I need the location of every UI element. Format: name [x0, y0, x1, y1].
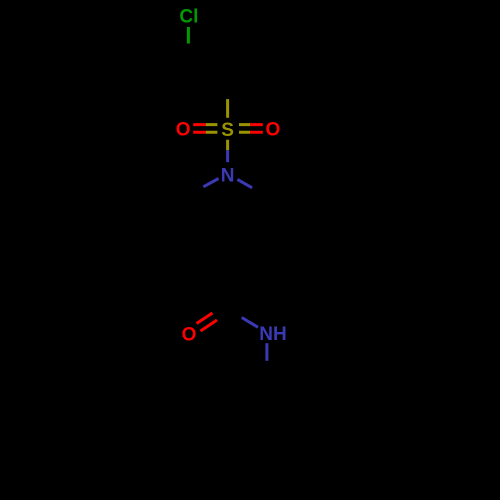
wire S=O right double bond, oxygen halves — [250, 125, 263, 133]
svg-text:O: O — [182, 324, 197, 345]
wire N-C2' ring bond (nitrogen half, down-left) — [203, 179, 218, 187]
wire N-C6' ring bond (nitrogen half, down-right) — [237, 179, 252, 187]
svg-text:S: S — [221, 120, 234, 141]
wire S=O right double bond, sulfur halves — [239, 125, 250, 133]
svg-text:N: N — [221, 166, 235, 187]
wire C-N amide bond (nitrogen half) — [242, 318, 258, 328]
wire S=O left double bond, oxygen halves — [193, 125, 206, 133]
svg-text:Cl: Cl — [179, 6, 198, 27]
wire S=O left double bond, sulfur halves — [206, 125, 218, 133]
wire C2-S bond (sulfur half) — [226, 99, 229, 118]
svg-text:NH: NH — [259, 324, 286, 345]
svg-text:O: O — [266, 120, 281, 141]
wire N-phenyl bond (nitrogen half) — [265, 343, 268, 361]
wire S-N bond (sulfur half) — [226, 140, 229, 151]
wire Cl-C1 bond (chlorine half) — [187, 27, 190, 44]
wire S-N bond (nitrogen half) — [226, 150, 229, 162]
svg-text:O: O — [176, 120, 191, 141]
wire C=O carbonyl double bond (oxygen halves) — [197, 313, 218, 331]
